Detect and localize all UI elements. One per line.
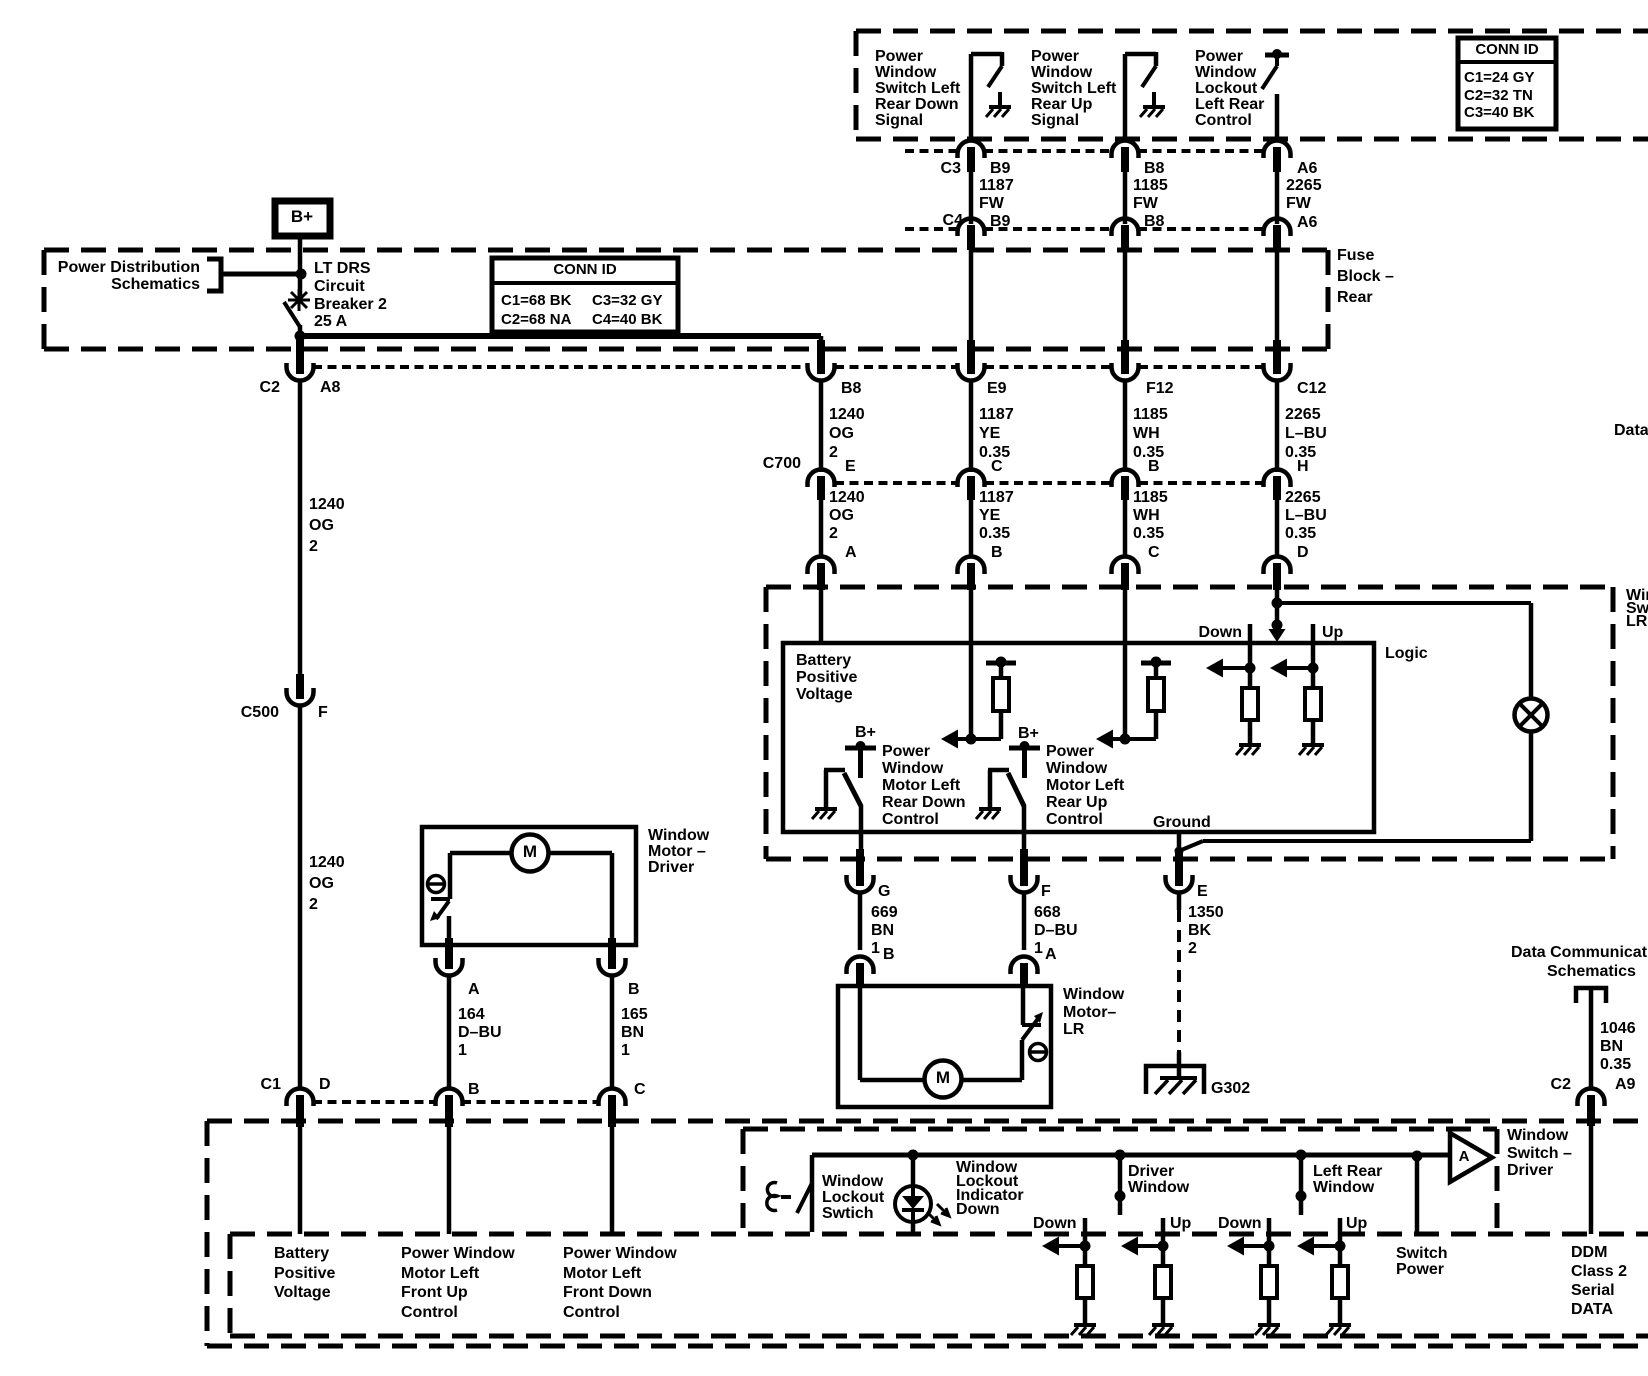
svg-text:1350: 1350 bbox=[1188, 904, 1224, 921]
svg-text:164: 164 bbox=[458, 1006, 485, 1023]
wire 669 BN 1 to motor bbox=[860, 892, 898, 957]
wire: LED drop bbox=[908, 1150, 919, 1233]
svg-text:A: A bbox=[845, 544, 857, 561]
wire: drop to fuse pin B8 bbox=[819, 336, 824, 348]
label C500 bbox=[241, 704, 279, 721]
svg-text:Circuit: Circuit bbox=[314, 278, 365, 295]
solid box: window motor LR bbox=[838, 986, 1051, 1107]
wire 668 D-BU 1 to motor bbox=[1024, 892, 1078, 957]
node+wire: driver window sense bbox=[1115, 1150, 1126, 1216]
svg-text:Driver: Driver bbox=[1128, 1163, 1174, 1180]
svg-text:Breaker 2: Breaker 2 bbox=[314, 296, 387, 313]
switch S3: lockout contact with pivot dot bbox=[1262, 49, 1289, 89]
svg-text:Window: Window bbox=[1507, 1127, 1569, 1144]
pin label B8 lower bbox=[1144, 213, 1165, 230]
svg-text:0.35: 0.35 bbox=[1133, 525, 1164, 542]
svg-text:YE: YE bbox=[979, 425, 1001, 442]
svg-text:Swtich: Swtich bbox=[822, 1205, 874, 1222]
resistor R4 (up pull-down) bbox=[1305, 688, 1321, 720]
svg-text:B8: B8 bbox=[1144, 160, 1165, 177]
svg-text:M: M bbox=[523, 842, 537, 861]
svg-text:LR: LR bbox=[1626, 613, 1648, 630]
node: breaker feed junction bbox=[296, 269, 307, 280]
svg-text:Rear Down: Rear Down bbox=[875, 96, 959, 113]
label C1 bbox=[261, 1076, 282, 1093]
wire+ground: up input bbox=[1299, 720, 1324, 755]
wire: battery feed into driver switch bbox=[298, 1120, 303, 1234]
wire 1240 OG 2 (left drop) bbox=[300, 380, 345, 688]
window switch connector arc at x=971 bbox=[958, 557, 985, 591]
pin label B8 bbox=[1144, 160, 1165, 177]
connector line C4 (dotted) bbox=[905, 227, 1262, 231]
thermal contact: motor LR bbox=[1022, 986, 1043, 1040]
dashed box: switch internals (inner) bbox=[230, 1234, 1648, 1336]
arrow: up sense bbox=[1270, 659, 1313, 678]
wire: motor LR left lead bbox=[860, 986, 925, 1080]
connector C700 arc at x=971 bbox=[958, 470, 985, 501]
conn id table C1=24GY C2=32TN C3=40BK bbox=[1458, 38, 1556, 129]
svg-text:OG: OG bbox=[309, 517, 334, 534]
wire 1240 OG (to C700) bbox=[821, 380, 865, 472]
svg-text:668: 668 bbox=[1034, 904, 1061, 921]
svg-text:Driver: Driver bbox=[1507, 1162, 1553, 1179]
svg-text:Control: Control bbox=[1195, 112, 1252, 129]
ground: under S1 bbox=[986, 92, 1011, 117]
svg-text:Data Communication: Data Communication bbox=[1511, 944, 1648, 961]
svg-text:C1=24 GY: C1=24 GY bbox=[1464, 69, 1534, 86]
svg-text:C700: C700 bbox=[763, 455, 801, 472]
connector C700 arc at x=1125 bbox=[1112, 470, 1139, 501]
svg-text:B+: B+ bbox=[855, 724, 876, 741]
connector line C700 (dotted) bbox=[835, 481, 1263, 485]
wire: rear-up signal into logic bbox=[1123, 585, 1128, 741]
svg-text:A: A bbox=[1045, 946, 1057, 963]
wire: 1187 through fuse block bbox=[969, 247, 974, 355]
solid box: window motor driver bbox=[422, 827, 636, 945]
switch: window lockout (pigtail+blade) bbox=[767, 1183, 812, 1214]
wire 1185 WH (to C700) bbox=[1125, 380, 1168, 472]
svg-text:Window: Window bbox=[875, 64, 937, 81]
pin label E (C700) bbox=[845, 458, 856, 475]
connector C700 arc at x=1277 bbox=[1264, 470, 1291, 501]
wire: rear down output to pin G bbox=[859, 805, 864, 860]
svg-text:2: 2 bbox=[829, 525, 838, 542]
pin F (connector arc) bbox=[1011, 849, 1038, 893]
wire: S3 down to connector C3 bbox=[1275, 94, 1280, 141]
wire: breaker output bus to right bbox=[300, 333, 821, 339]
wire: 1185 through fuse block bbox=[1123, 247, 1128, 355]
motor M (driver) bbox=[512, 835, 549, 872]
svg-text:2: 2 bbox=[829, 444, 838, 461]
svg-text:Battery: Battery bbox=[796, 652, 851, 669]
contact B+ (2): T bar bbox=[1009, 741, 1040, 778]
pin label A9 bbox=[1615, 1076, 1636, 1093]
svg-text:BK: BK bbox=[1188, 922, 1212, 939]
svg-text:Fuse: Fuse bbox=[1337, 247, 1374, 264]
svg-text:1240: 1240 bbox=[309, 496, 345, 513]
svg-text:FW: FW bbox=[1286, 195, 1312, 212]
svg-text:Motor –: Motor – bbox=[648, 843, 706, 860]
wire: driver motor left lead bbox=[450, 853, 511, 899]
svg-text:YE: YE bbox=[979, 507, 1001, 524]
label Up (driver window) bbox=[1170, 1215, 1192, 1232]
svg-text:2265: 2265 bbox=[1285, 406, 1321, 423]
svg-text:Positive: Positive bbox=[796, 669, 857, 686]
svg-text:Up: Up bbox=[1170, 1215, 1192, 1232]
label: Power Window Motor Left Rear Up Control bbox=[1046, 743, 1125, 828]
label: DDM Class 2 Serial DATA bbox=[1571, 1244, 1627, 1318]
svg-text:Motor Left: Motor Left bbox=[882, 777, 961, 794]
svg-text:Window: Window bbox=[648, 827, 710, 844]
svg-text:C1=68 BK: C1=68 BK bbox=[501, 292, 572, 309]
label: Power Window Motor Left Front Down Control bbox=[563, 1245, 677, 1321]
resistor R1 (rear down pull-up) bbox=[993, 665, 1009, 711]
dashed box: fuse block rear / power distribution bbox=[44, 250, 1328, 349]
svg-text:2265: 2265 bbox=[1285, 489, 1321, 506]
label: Window Motor- LR bbox=[1063, 986, 1125, 1038]
svg-text:1: 1 bbox=[871, 940, 880, 957]
wire: driver motor left out bbox=[447, 916, 452, 945]
svg-text:C3: C3 bbox=[941, 160, 962, 177]
svg-text:1187: 1187 bbox=[979, 489, 1014, 506]
label: Fuse Block - Rear bbox=[1337, 247, 1394, 306]
driver motor connector arc A bbox=[436, 938, 463, 976]
pin label B (driver switch) bbox=[468, 1081, 480, 1098]
svg-text:1: 1 bbox=[458, 1042, 467, 1059]
svg-text:Window: Window bbox=[1031, 64, 1093, 81]
arrow: down sense bbox=[1206, 659, 1250, 678]
label Down (logic) bbox=[1198, 624, 1242, 641]
svg-text:Left Rear: Left Rear bbox=[1313, 1163, 1382, 1180]
svg-text:Power: Power bbox=[1195, 48, 1243, 65]
svg-text:B8: B8 bbox=[841, 380, 862, 397]
node: breaker output junction bbox=[295, 325, 306, 347]
label: Data (clipped at right edge) bbox=[1614, 422, 1648, 439]
wire: front down control into switch box bbox=[610, 1120, 615, 1234]
wire: front up control into switch box bbox=[447, 1120, 452, 1234]
svg-text:C: C bbox=[991, 458, 1003, 475]
svg-text:Data Communication: Data Communication bbox=[1614, 422, 1648, 439]
svg-text:2: 2 bbox=[309, 538, 318, 555]
label: Ground bbox=[1153, 814, 1211, 831]
svg-text:Battery: Battery bbox=[274, 1245, 329, 1262]
wire: motor LR right lead bbox=[961, 1040, 1022, 1080]
wire 1187 YE (to window switch) bbox=[971, 489, 1014, 558]
svg-text:1185: 1185 bbox=[1133, 177, 1168, 194]
svg-text:Front Down: Front Down bbox=[563, 1284, 652, 1301]
wire: logic ground to pin E bbox=[1175, 832, 1184, 860]
svg-text:Window: Window bbox=[1128, 1179, 1190, 1196]
svg-text:A9: A9 bbox=[1615, 1076, 1636, 1093]
resistor R3 (down pull-down) bbox=[1242, 688, 1258, 720]
node+wire: left rear window sense bbox=[1296, 1150, 1307, 1216]
pin label F bbox=[318, 704, 328, 721]
svg-text:C12: C12 bbox=[1297, 380, 1326, 397]
svg-text:Down: Down bbox=[1218, 1215, 1262, 1232]
svg-text:C3=40 BK: C3=40 BK bbox=[1464, 104, 1535, 121]
wire 1187 YE (to C700) bbox=[971, 380, 1014, 472]
svg-text:BN: BN bbox=[621, 1024, 644, 1041]
label: LT DRS Circuit Breaker 2 25A bbox=[314, 260, 387, 330]
label G302 bbox=[1211, 1080, 1250, 1097]
label B+ (1) bbox=[855, 724, 876, 741]
wire 1350 BK 2 (dashed to ground) bbox=[1179, 892, 1224, 1078]
node+wire: switch power drop bbox=[1412, 1151, 1423, 1237]
svg-text:Signal: Signal bbox=[875, 112, 923, 129]
pin label A (window switch) bbox=[845, 544, 857, 561]
wire: lamp return bbox=[1179, 731, 1531, 851]
svg-text:Rear Up: Rear Up bbox=[1031, 96, 1093, 113]
svg-text:Window: Window bbox=[1046, 760, 1108, 777]
label: Switch Power bbox=[1396, 1245, 1448, 1278]
pin G (connector arc) bbox=[847, 849, 874, 893]
svg-text:B9: B9 bbox=[990, 160, 1011, 177]
svg-text:1185: 1185 bbox=[1133, 489, 1168, 506]
node: pull-up top junction 1 bbox=[986, 657, 1016, 668]
wire: B+ into fuse box bbox=[298, 238, 303, 296]
svg-text:Control: Control bbox=[882, 811, 939, 828]
label: Power Window Lockout Left Rear Control bbox=[1195, 48, 1264, 129]
svg-text:Window: Window bbox=[1063, 986, 1125, 1003]
ground: rear up contact rest bbox=[976, 809, 1001, 819]
solid box: logic block bbox=[783, 643, 1374, 832]
svg-text:D: D bbox=[319, 1076, 331, 1093]
svg-text:B+: B+ bbox=[291, 207, 313, 226]
window switch connector arc at x=821 bbox=[808, 557, 835, 591]
circuit breaker CB2: LT DRS 25A (asterisk + blade) bbox=[284, 289, 310, 327]
svg-text:Window: Window bbox=[1195, 64, 1257, 81]
amplifier A: class-2 interface bbox=[1450, 1133, 1492, 1182]
svg-text:Rear Down: Rear Down bbox=[882, 794, 966, 811]
svg-text:1240: 1240 bbox=[829, 406, 865, 423]
label Down (left rear window) bbox=[1218, 1215, 1262, 1232]
svg-text:C2: C2 bbox=[1551, 1076, 1572, 1093]
LED: window lockout indicator bbox=[895, 1186, 949, 1224]
svg-text:G302: G302 bbox=[1211, 1080, 1250, 1097]
svg-text:Power: Power bbox=[1396, 1261, 1444, 1278]
svg-text:CONN ID: CONN ID bbox=[553, 261, 617, 278]
svg-text:C4=40 BK: C4=40 BK bbox=[592, 311, 663, 328]
pin label B9 lower bbox=[990, 213, 1011, 230]
pin C3-B9 (connector arc) bbox=[958, 141, 985, 173]
svg-text:DDM: DDM bbox=[1571, 1244, 1607, 1261]
switch: rear up output contact bbox=[988, 770, 1024, 808]
connector C2-A9 arc bbox=[1578, 1089, 1605, 1127]
wire 1187 FW segment bbox=[971, 168, 1014, 224]
label: Power Window Motor Left Rear Down Control bbox=[882, 743, 966, 828]
svg-text:669: 669 bbox=[871, 904, 898, 921]
svg-text:G: G bbox=[878, 883, 890, 900]
svg-text:Window: Window bbox=[1313, 1179, 1375, 1196]
svg-text:L–BU: L–BU bbox=[1285, 425, 1327, 442]
svg-text:FW: FW bbox=[1133, 195, 1159, 212]
up input cell: driver window bbox=[1121, 1218, 1174, 1335]
wire: 2265 through fuse block bbox=[1275, 247, 1280, 355]
svg-text:B: B bbox=[468, 1081, 480, 1098]
svg-text:1: 1 bbox=[1034, 940, 1043, 957]
pin C3-B8 (connector arc) bbox=[1112, 141, 1139, 173]
label: Power Distribution Schematics bbox=[58, 259, 200, 293]
label C3 bbox=[941, 160, 962, 177]
svg-text:Power: Power bbox=[1046, 743, 1094, 760]
svg-text:Down: Down bbox=[1033, 1215, 1077, 1232]
pin label H (C700) bbox=[1297, 458, 1309, 475]
ground G302 symbol bbox=[1146, 1066, 1204, 1094]
pin label E bbox=[1197, 883, 1208, 900]
svg-text:OG: OG bbox=[829, 425, 854, 442]
svg-text:LT DRS: LT DRS bbox=[314, 260, 371, 277]
label: Logic bbox=[1385, 645, 1428, 662]
dashed box: window switch driver (outer) bbox=[207, 1121, 1648, 1346]
bracket: power distribution reference bbox=[207, 259, 221, 291]
pin E (connector arc) bbox=[1166, 849, 1193, 893]
wire 1240 OG (to window switch) bbox=[821, 489, 865, 558]
motor connector arc G bbox=[847, 957, 874, 988]
svg-text:OG: OG bbox=[309, 875, 334, 892]
svg-text:Ground: Ground bbox=[1153, 814, 1211, 831]
connector line C3 (dotted) bbox=[905, 149, 1262, 153]
pin label B (motor conn) bbox=[883, 946, 895, 963]
connector C500 pin F (arc) bbox=[287, 674, 314, 706]
pin label A (motor conn) bbox=[1045, 946, 1057, 963]
svg-text:Lockout: Lockout bbox=[1195, 80, 1258, 97]
ground: under S2 bbox=[1140, 92, 1165, 117]
driver motor connector arc B bbox=[599, 938, 626, 976]
svg-text:Switch –: Switch – bbox=[1507, 1145, 1572, 1162]
svg-text:Switch Left: Switch Left bbox=[1031, 80, 1117, 97]
svg-text:WH: WH bbox=[1133, 507, 1160, 524]
svg-text:L–BU: L–BU bbox=[1285, 507, 1327, 524]
svg-text:BN: BN bbox=[1600, 1038, 1623, 1055]
svg-text:Down: Down bbox=[956, 1201, 1000, 1218]
svg-text:2265: 2265 bbox=[1286, 177, 1322, 194]
svg-text:Rear Up: Rear Up bbox=[1046, 794, 1108, 811]
svg-text:D–BU: D–BU bbox=[458, 1024, 502, 1041]
wire: rear-down signal into logic bbox=[969, 585, 974, 741]
svg-text:A6: A6 bbox=[1297, 160, 1318, 177]
pin label B9 bbox=[990, 160, 1011, 177]
svg-text:H: H bbox=[1297, 458, 1309, 475]
svg-text:F: F bbox=[1041, 883, 1051, 900]
svg-text:Power Window: Power Window bbox=[563, 1245, 677, 1262]
node: pull-up top junction 2 bbox=[1141, 657, 1171, 668]
svg-text:B: B bbox=[883, 946, 895, 963]
svg-text:1187: 1187 bbox=[979, 406, 1014, 423]
svg-text:FW: FW bbox=[979, 195, 1005, 212]
wire: driver motor right lead bbox=[549, 853, 612, 945]
pin C2-A8 (connector arc) bbox=[287, 340, 314, 381]
pin label C (driver switch) bbox=[634, 1081, 646, 1098]
svg-text:1185: 1185 bbox=[1133, 406, 1168, 423]
label: Window Switch - LR (clipped) bbox=[1626, 587, 1648, 630]
resistor R2 (rear up pull-up) bbox=[1148, 665, 1164, 711]
svg-text:0.35: 0.35 bbox=[1600, 1056, 1631, 1073]
switch: rear down output contact bbox=[824, 770, 861, 808]
pin label D bbox=[319, 1076, 331, 1093]
wire: lockout box left edge bbox=[810, 1155, 815, 1232]
B+ box: battery positive feed bbox=[275, 201, 330, 236]
wire 2265 L–BU (to window switch) bbox=[1277, 489, 1327, 558]
dashed box: window lockout switch assembly bbox=[743, 1129, 1497, 1233]
svg-text:C2=68 NA: C2=68 NA bbox=[501, 311, 572, 328]
svg-text:Voltage: Voltage bbox=[274, 1284, 331, 1301]
svg-text:Schematics: Schematics bbox=[1547, 963, 1636, 980]
dashed box: window switch left-rear signals (top) bbox=[856, 31, 1648, 139]
svg-text:C500: C500 bbox=[241, 704, 279, 721]
thermal symbol (theta) LR bbox=[1030, 1044, 1047, 1061]
svg-text:2: 2 bbox=[309, 896, 318, 913]
driver switch connector arc B bbox=[436, 1089, 463, 1128]
window switch connector arc at x=1277 bbox=[1264, 557, 1291, 591]
svg-text:D: D bbox=[1297, 544, 1309, 561]
thermal contact: motor driver bbox=[430, 899, 450, 921]
svg-text:Motor Left: Motor Left bbox=[401, 1265, 480, 1282]
svg-text:Left Rear: Left Rear bbox=[1195, 96, 1264, 113]
label C2 (DDM) bbox=[1551, 1076, 1572, 1093]
wire 2265 FW segment bbox=[1277, 168, 1322, 224]
label: Battery Positive Voltage bbox=[796, 652, 857, 703]
pin label C (window switch) bbox=[1148, 544, 1160, 561]
svg-text:CONN ID: CONN ID bbox=[1475, 41, 1539, 58]
wire: class 2 serial data bbox=[1589, 1120, 1594, 1234]
svg-text:C3=32 GY: C3=32 GY bbox=[592, 292, 662, 309]
label Down (driver window) bbox=[1033, 1215, 1077, 1232]
pin C3-A6 (connector arc) bbox=[1264, 141, 1291, 173]
svg-text:Lockout: Lockout bbox=[822, 1189, 885, 1206]
svg-text:1046: 1046 bbox=[1600, 1020, 1636, 1037]
label: Battery Positive Voltage (driver switch) bbox=[274, 1245, 335, 1301]
svg-text:1187: 1187 bbox=[979, 177, 1014, 194]
svg-text:Serial: Serial bbox=[1571, 1282, 1615, 1299]
svg-text:Up: Up bbox=[1346, 1215, 1368, 1232]
svg-text:A: A bbox=[468, 981, 480, 998]
label B+ (2) bbox=[1018, 725, 1039, 742]
pin label F bbox=[1041, 883, 1051, 900]
wire+arrow: rear up drive bbox=[1096, 711, 1156, 749]
pin C1-D (connector arc) bbox=[287, 1089, 314, 1128]
svg-text:B: B bbox=[1148, 458, 1160, 475]
wire 1240 OG 2 (lower left drop) bbox=[300, 705, 345, 1090]
conn id table C1=68BK C2=68NA C3=32GY C4=40BK bbox=[492, 258, 678, 332]
pin C4-B8 (connector arc) bbox=[1112, 218, 1139, 250]
svg-text:1240: 1240 bbox=[829, 489, 865, 506]
connector line (dotted) below fuse block bbox=[313, 365, 1263, 369]
svg-text:F: F bbox=[318, 704, 328, 721]
switch S2: left rear up signal switch bbox=[1125, 52, 1156, 87]
pin label A8 bbox=[320, 379, 341, 396]
pin label E9 bbox=[987, 380, 1007, 397]
svg-text:2: 2 bbox=[1188, 940, 1197, 957]
svg-text:Driver: Driver bbox=[648, 859, 694, 876]
pin label A6 bbox=[1297, 160, 1318, 177]
svg-text:Control: Control bbox=[563, 1304, 620, 1321]
svg-text:BN: BN bbox=[871, 922, 894, 939]
label: Left Rear Window bbox=[1313, 1163, 1382, 1196]
svg-text:Front Up: Front Up bbox=[401, 1284, 468, 1301]
label C4 bbox=[943, 212, 964, 229]
pin C4-B9 (connector arc) bbox=[958, 218, 985, 250]
svg-text:A6: A6 bbox=[1297, 214, 1318, 231]
connector line driver switch (dotted) bbox=[313, 1100, 598, 1104]
wire: up input stub bbox=[1308, 624, 1319, 688]
connector C700 arc at x=821 bbox=[808, 470, 835, 501]
pin label D (window switch) bbox=[1297, 544, 1309, 561]
svg-text:C2=32 TN: C2=32 TN bbox=[1464, 87, 1533, 104]
svg-text:E: E bbox=[845, 458, 856, 475]
svg-text:0.35: 0.35 bbox=[1285, 525, 1316, 542]
label: Power Window Motor Left Front Up Control bbox=[401, 1245, 515, 1321]
ground: rear down contact rest bbox=[812, 809, 837, 819]
